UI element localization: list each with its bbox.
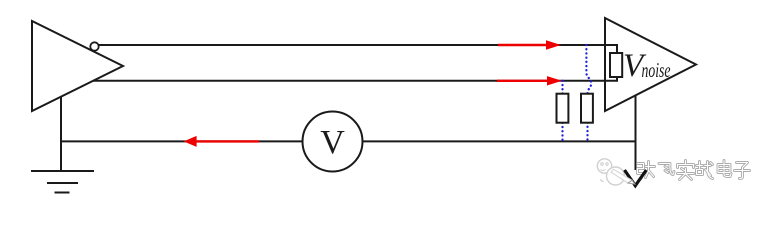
wire: bottom return line from ground rail to receiver drop xyxy=(61,140,636,142)
wire: vertical drop from receiver bottom edge down to arrow xyxy=(635,95,637,170)
glyph dian xyxy=(718,161,731,177)
red current arrow on second signal line xyxy=(497,76,562,85)
watermark mascot pencil over arrow xyxy=(611,169,635,184)
resistor: termination inside receiver (Vnoise) xyxy=(610,53,622,77)
glyph shi xyxy=(678,161,694,180)
wire: top signal line from driver bubble to receiver xyxy=(99,45,617,53)
glyph zhan xyxy=(697,162,713,179)
glyph zi xyxy=(735,163,750,179)
resistor R1 (parasitic path) xyxy=(557,94,569,123)
arrow: open down arrowhead at bottom of receiver drop xyxy=(625,170,647,186)
svg-text:V: V xyxy=(320,124,345,161)
inversion bubble on driver output xyxy=(90,42,98,50)
watermark text 张飞实战电子 (hand-drawn outline glyphs) xyxy=(638,161,750,180)
wire: second signal line from driver bottom edge to termination resistor xyxy=(93,77,617,81)
wire: vertical drop from driver bottom edge to ground xyxy=(60,97,62,171)
glyph zhang xyxy=(638,162,655,179)
op-amp U1 left line driver triangle xyxy=(32,21,123,111)
resistor R2 (parasitic path) xyxy=(581,94,593,123)
blue dashed noise path from top line through R2 (with jog) xyxy=(586,45,591,141)
glyph fei xyxy=(659,164,674,175)
label Vnoise xyxy=(623,48,671,84)
op-amp U2 right receiver triangle xyxy=(605,18,696,111)
voltmeter V xyxy=(303,112,363,172)
red current arrow on top signal line xyxy=(498,40,561,49)
svg-text:noise: noise xyxy=(642,58,671,82)
ground symbol xyxy=(31,171,94,193)
red return-current arrow on bottom line (pointing left) xyxy=(184,136,259,147)
watermark mascot logo xyxy=(597,159,624,185)
blue dashed noise path through R1 xyxy=(561,81,563,142)
